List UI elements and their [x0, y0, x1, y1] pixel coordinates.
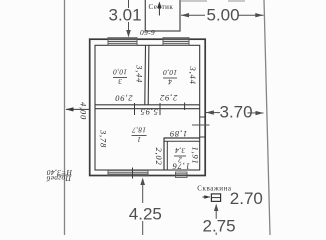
svg-text:Скважина: Скважина: [197, 184, 232, 192]
interior horizontal wall: [95, 104, 200, 106]
right site boundary: [264, 0, 270, 235]
svg-text:Н=3,40: Н=3,40: [47, 168, 73, 177]
svg-text:1: 1: [137, 135, 141, 144]
right wall window ticks: [200, 116, 206, 118]
septic tank box: [145, 0, 180, 31]
middle wall rooms 3|4: [144, 45, 147, 105]
room 1 label: [132, 126, 147, 145]
svg-text:2,90: 2,90: [115, 94, 133, 104]
bottom wall tick: [132, 168, 134, 179]
dim 4.00 arrow: [66, 108, 90, 110]
svg-text:4,00: 4,00: [79, 102, 89, 120]
dim 5.00: [181, 14, 264, 16]
dim 3.01: [128, 0, 130, 8]
room 2 label: [174, 146, 186, 165]
bottom wall window hatch: [108, 170, 148, 176]
svg-text:3: 3: [118, 77, 123, 86]
well arrow: [203, 196, 210, 198]
window sill line: [192, 124, 210, 126]
svg-text:10,0: 10,0: [113, 68, 127, 77]
building inner wall: [95, 45, 200, 170]
dim 3.70: [206, 112, 220, 114]
svg-text:1,76: 1,76: [172, 161, 190, 171]
svg-text:4: 4: [168, 78, 172, 87]
building outer wall: [90, 39, 206, 175]
svg-text:2,02: 2,02: [154, 147, 164, 165]
svg-text:3.01: 3.01: [109, 6, 142, 25]
cellar label: [46, 168, 73, 183]
svg-text:10,0: 10,0: [163, 68, 177, 77]
svg-text:4.25: 4.25: [129, 204, 162, 223]
room 2 top wall: [164, 137, 200, 139]
svg-text:2.70: 2.70: [230, 189, 263, 208]
window W1 top wall: [108, 37, 137, 45]
septic arrow up: [158, 4, 160, 16]
svg-text:2,92: 2,92: [159, 93, 177, 103]
svg-text:09-9: 09-9: [140, 28, 155, 37]
svg-text:2.75: 2.75: [203, 217, 236, 235]
svg-text:5,95: 5,95: [140, 107, 158, 117]
svg-text:1,89: 1,89: [169, 129, 187, 139]
room 4 label: [163, 68, 177, 87]
svg-text:3,78: 3,78: [99, 129, 109, 148]
svg-text:3,44: 3,44: [135, 64, 145, 83]
left site boundary: [64, 0, 66, 235]
window W2 top wall: [163, 37, 189, 45]
room 3 label: [113, 68, 127, 87]
bottom door steps room 2: [176, 172, 188, 178]
dim 4.25: [140, 178, 145, 186]
faint cut-off text top: [181, 0, 207, 2]
dim 2.75 arrow: [214, 204, 218, 212]
svg-text:3,44: 3,44: [188, 66, 198, 85]
room 2 left wall: [163, 138, 165, 170]
svg-text:18,7: 18,7: [132, 126, 146, 135]
wall ticks: [134, 103, 136, 115]
svg-text:1,91: 1,91: [191, 146, 201, 164]
svg-text:5.00: 5.00: [207, 6, 240, 25]
svg-text:3,4: 3,4: [175, 146, 186, 155]
svg-text:3.70: 3.70: [220, 103, 253, 122]
